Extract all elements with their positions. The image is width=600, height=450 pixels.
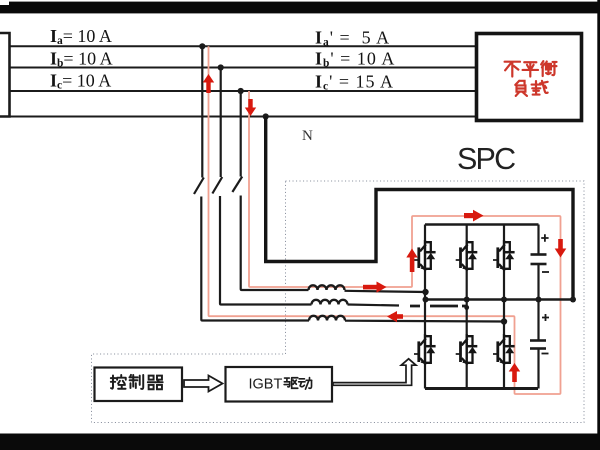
node mid neutral — [570, 297, 576, 303]
capacitor C1 (upper DC link) — [531, 225, 547, 300]
IGBT Q2 (bottom leg1) — [414, 334, 436, 365]
wire phase A drop (lower) + bend to inductor row 3 — [201, 197, 309, 321]
compensation current loop (orange) — [209, 46, 561, 394]
capacitor C1 minus label — [542, 271, 549, 273]
wire phase C drop (upper) — [240, 91, 242, 177]
wire phase B solid segment after inductor — [348, 305, 400, 306]
arrow right on phase C injection — [363, 282, 387, 293]
wire phase B dashed continuation to leg 2 — [410, 305, 467, 308]
node Ic junction — [238, 88, 244, 94]
bridge top DC rail — [425, 223, 539, 226]
node mid leg3 — [501, 297, 507, 303]
bottom letterbox black bar — [0, 434, 600, 450]
IGBT Q1 (top leg1) — [414, 240, 436, 271]
bridge leg 1 vertical — [424, 225, 426, 389]
inductor L1 (phase C row) — [309, 285, 345, 290]
IGBT Q6 (bottom leg3) — [493, 334, 515, 365]
wire phase B drop (lower) + bend to inductor row 2 — [220, 196, 312, 305]
load box text 不平衡 — [505, 61, 557, 76]
right frame black strip — [597, 0, 600, 450]
arrow up on bottom right loop — [509, 363, 521, 382]
wire phase A to bridge leg 3 — [345, 320, 504, 323]
top letterbox black bar — [0, 2, 600, 14]
arrow up on left bridge loop — [406, 249, 417, 273]
wire phase B drop (upper) — [220, 68, 222, 178]
IGBT drive box — [226, 367, 333, 402]
wire phase C drop (lower) + bend to inductor row 1 — [241, 196, 309, 291]
node phase C tap on leg 1 — [422, 289, 428, 295]
bridge leg 2 vertical — [466, 225, 468, 389]
wire neutral thick path into SPC — [266, 117, 573, 300]
hollow arrow controller to drive — [184, 376, 223, 392]
switch QF1 blade — [194, 178, 204, 195]
load box text 负载 — [515, 81, 547, 96]
IGBT Q4 (bottom leg2) — [456, 334, 478, 365]
bridge leg 3 vertical — [503, 225, 505, 389]
SPC dashed boundary box — [92, 181, 585, 423]
arrow right on top rail loop — [464, 210, 484, 222]
wire phase A drop (upper) — [201, 46, 203, 177]
inductor L3 (phase A row) — [309, 316, 345, 321]
wire phase C horizontal (Ic line) — [10, 90, 476, 92]
capacitor C2 plus label — [542, 314, 549, 321]
load box (unbalanced load) — [477, 34, 582, 121]
IGBT Q5 (top leg3) — [493, 240, 515, 271]
controller box — [95, 368, 183, 402]
switch QF2 blade — [212, 177, 222, 194]
node phase B tap on leg 2 — [464, 305, 469, 310]
node mid cap leg — [536, 297, 542, 303]
capacitor C1 plus label — [541, 234, 548, 241]
node phase A tap on leg 3 — [501, 318, 507, 324]
bridge bottom DC rail — [425, 387, 538, 390]
arrow left on phase A injection — [387, 311, 403, 322]
node mid leg2 — [464, 297, 470, 303]
node Ia junction — [199, 43, 205, 49]
arrow up on phase A compensation line — [203, 74, 214, 93]
switch QF3 blade — [232, 177, 242, 193]
hollow arrow drive to bridge — [333, 359, 416, 386]
wire neutral N horizontal — [10, 116, 476, 118]
source box (grid, cut off at left edge) — [0, 33, 10, 117]
svg-text:SPC: SPC — [457, 142, 515, 176]
top-left white notch — [0, 0, 9, 5]
node mid leg1 — [423, 297, 429, 303]
node N junction — [263, 113, 269, 119]
svg-text:IGBT: IGBT — [249, 377, 283, 393]
inductor L2 (phase B row) — [312, 300, 348, 305]
capacitor C2 (lower DC link) — [530, 300, 546, 389]
midpoint bus wire to neutral — [426, 298, 574, 301]
IGBT drive box text 驱动 — [284, 378, 312, 390]
wire phase A horizontal (Ia line) — [10, 45, 476, 47]
arrow down on phase C compensation line — [245, 99, 256, 116]
wire phase B horizontal (Ib line) — [10, 67, 476, 69]
svg-text:N: N — [302, 128, 313, 144]
node Ib junction — [218, 64, 224, 70]
controller box text 控制器 — [111, 375, 163, 389]
arrow down on right loop — [555, 239, 567, 258]
wire phase C to bridge leg 1 — [345, 291, 426, 292]
IGBT Q3 (top leg2) — [456, 240, 478, 271]
capacitor C2 minus label — [542, 353, 549, 355]
